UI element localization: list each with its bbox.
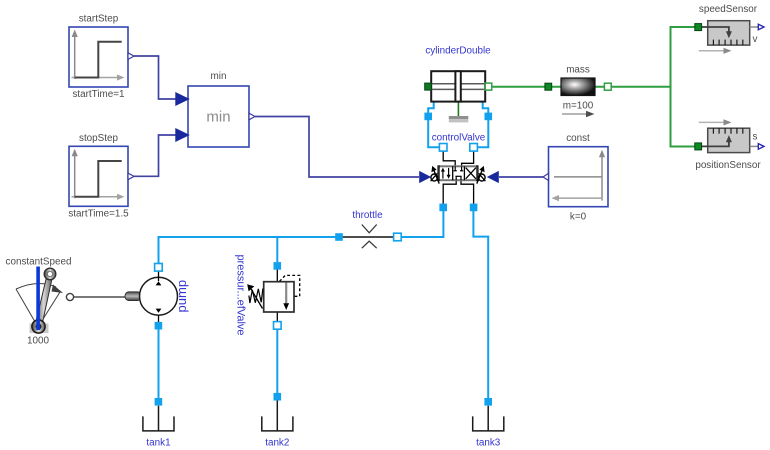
svg-text:positionSensor: positionSensor [695,160,761,171]
svg-text:mass: mass [566,65,590,76]
svg-text:min: min [206,109,230,126]
svg-text:throttle: throttle [352,210,383,221]
svg-text:startTime=1.5: startTime=1.5 [68,209,129,220]
svg-text:k=0: k=0 [570,211,587,222]
svg-text:startTime=1: startTime=1 [72,89,125,100]
svg-text:constantSpeed: constantSpeed [6,257,72,268]
svg-text:tank2: tank2 [265,438,289,449]
svg-text:stopStep: stopStep [79,133,118,144]
svg-text:1000: 1000 [27,336,49,347]
svg-text:const: const [566,133,590,144]
svg-text:tank1: tank1 [146,438,171,449]
svg-text:s: s [753,132,758,143]
svg-text:controlValve: controlValve [432,133,486,144]
svg-text:m=100: m=100 [563,101,594,112]
svg-text:startStep: startStep [79,14,119,25]
svg-text:tank3: tank3 [476,438,501,449]
svg-text:speedSensor: speedSensor [699,4,758,15]
svg-text:cylinderDouble: cylinderDouble [425,46,491,57]
svg-text:min: min [211,71,227,82]
svg-text:pump: pump [174,280,189,313]
svg-text:v: v [753,34,758,45]
svg-text:pressur...efValve: pressur...efValve [235,254,247,335]
